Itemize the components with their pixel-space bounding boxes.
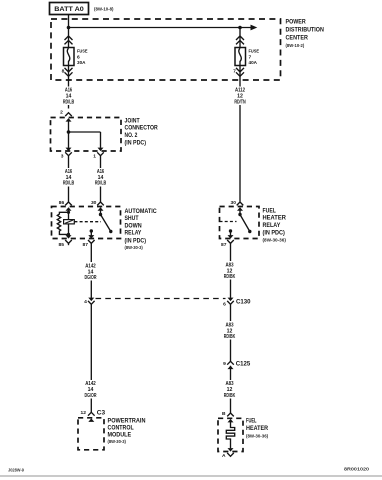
svg-text:FUSE: FUSE <box>249 49 260 55</box>
svg-text:12: 12 <box>81 410 87 416</box>
svg-text:87: 87 <box>83 242 89 248</box>
svg-text:(8W-30-36): (8W-30-36) <box>263 237 287 242</box>
svg-text:6: 6 <box>77 54 80 60</box>
svg-text:86: 86 <box>59 200 65 206</box>
svg-text:30A: 30A <box>77 60 86 66</box>
svg-text:DOWN: DOWN <box>125 222 142 229</box>
svg-text:DG/OR: DG/OR <box>85 275 97 281</box>
svg-text:8: 8 <box>62 69 65 75</box>
svg-text:(8W-30-3): (8W-30-3) <box>108 439 127 444</box>
svg-text:30: 30 <box>91 200 97 206</box>
svg-text:AUTOMATIC: AUTOMATIC <box>125 208 157 215</box>
svg-text:FUEL: FUEL <box>246 418 257 425</box>
svg-text:DG/OR: DG/OR <box>85 393 97 399</box>
svg-text:CENTER: CENTER <box>286 34 309 41</box>
svg-text:NO. 2: NO. 2 <box>125 132 138 139</box>
svg-text:87: 87 <box>221 242 227 248</box>
svg-text:SHUT: SHUT <box>125 215 139 222</box>
svg-text:HEATER: HEATER <box>246 425 268 432</box>
svg-text:POWERTRAIN: POWERTRAIN <box>108 417 146 424</box>
svg-text:(IN PDC): (IN PDC) <box>125 237 147 244</box>
svg-text:RD/BK: RD/BK <box>224 334 236 340</box>
svg-text:(IN PDC): (IN PDC) <box>263 230 285 237</box>
svg-text:DISTRIBUTION: DISTRIBUTION <box>286 27 325 34</box>
svg-text:C125: C125 <box>236 361 251 368</box>
svg-text:HEATER: HEATER <box>263 215 287 222</box>
svg-text:CONTROL: CONTROL <box>108 425 134 432</box>
svg-text:RELAY: RELAY <box>263 222 281 229</box>
svg-text:RD/TN: RD/TN <box>234 99 245 105</box>
svg-text:A: A <box>222 453 226 459</box>
svg-text:30: 30 <box>231 200 237 206</box>
svg-text:(8W-30-3): (8W-30-3) <box>125 245 144 250</box>
svg-text:7: 7 <box>233 69 236 75</box>
svg-text:RD/BK: RD/BK <box>224 274 236 280</box>
svg-text:40A: 40A <box>249 60 258 66</box>
svg-text:85: 85 <box>59 242 65 248</box>
svg-text:RELAY: RELAY <box>125 230 142 237</box>
svg-text:MODULE: MODULE <box>108 432 132 439</box>
svg-text:RD/LB: RD/LB <box>63 99 74 105</box>
svg-text:FUEL: FUEL <box>263 207 276 214</box>
svg-text:RD/LB: RD/LB <box>95 181 106 187</box>
svg-text:JOINT: JOINT <box>125 117 140 124</box>
svg-text:BATT A0: BATT A0 <box>54 6 84 13</box>
svg-text:CONNECTOR: CONNECTOR <box>125 125 159 132</box>
svg-text:(8W-10-8): (8W-10-8) <box>94 6 114 11</box>
svg-text:B: B <box>222 411 226 417</box>
svg-text:(IN PDC): (IN PDC) <box>125 139 147 146</box>
svg-text:3: 3 <box>61 153 64 159</box>
svg-text:1: 1 <box>93 153 96 159</box>
svg-text:RD/BK: RD/BK <box>224 393 236 399</box>
svg-text:9: 9 <box>223 361 226 367</box>
svg-text:2: 2 <box>60 110 63 116</box>
svg-text:(8W-30-36): (8W-30-36) <box>246 434 269 439</box>
svg-text:FUSE: FUSE <box>77 49 88 55</box>
svg-text:7: 7 <box>249 54 252 60</box>
svg-text:8R001020: 8R001020 <box>344 467 370 472</box>
svg-text:C130: C130 <box>236 299 251 306</box>
svg-text:(8W-10-2): (8W-10-2) <box>286 43 305 48</box>
svg-text:RD/LB: RD/LB <box>63 181 74 187</box>
svg-text:J028W-9: J028W-9 <box>8 467 24 472</box>
svg-text:C3: C3 <box>97 410 106 417</box>
svg-text:POWER: POWER <box>286 18 306 25</box>
svg-text:6: 6 <box>223 302 226 308</box>
svg-text:4: 4 <box>84 299 87 305</box>
